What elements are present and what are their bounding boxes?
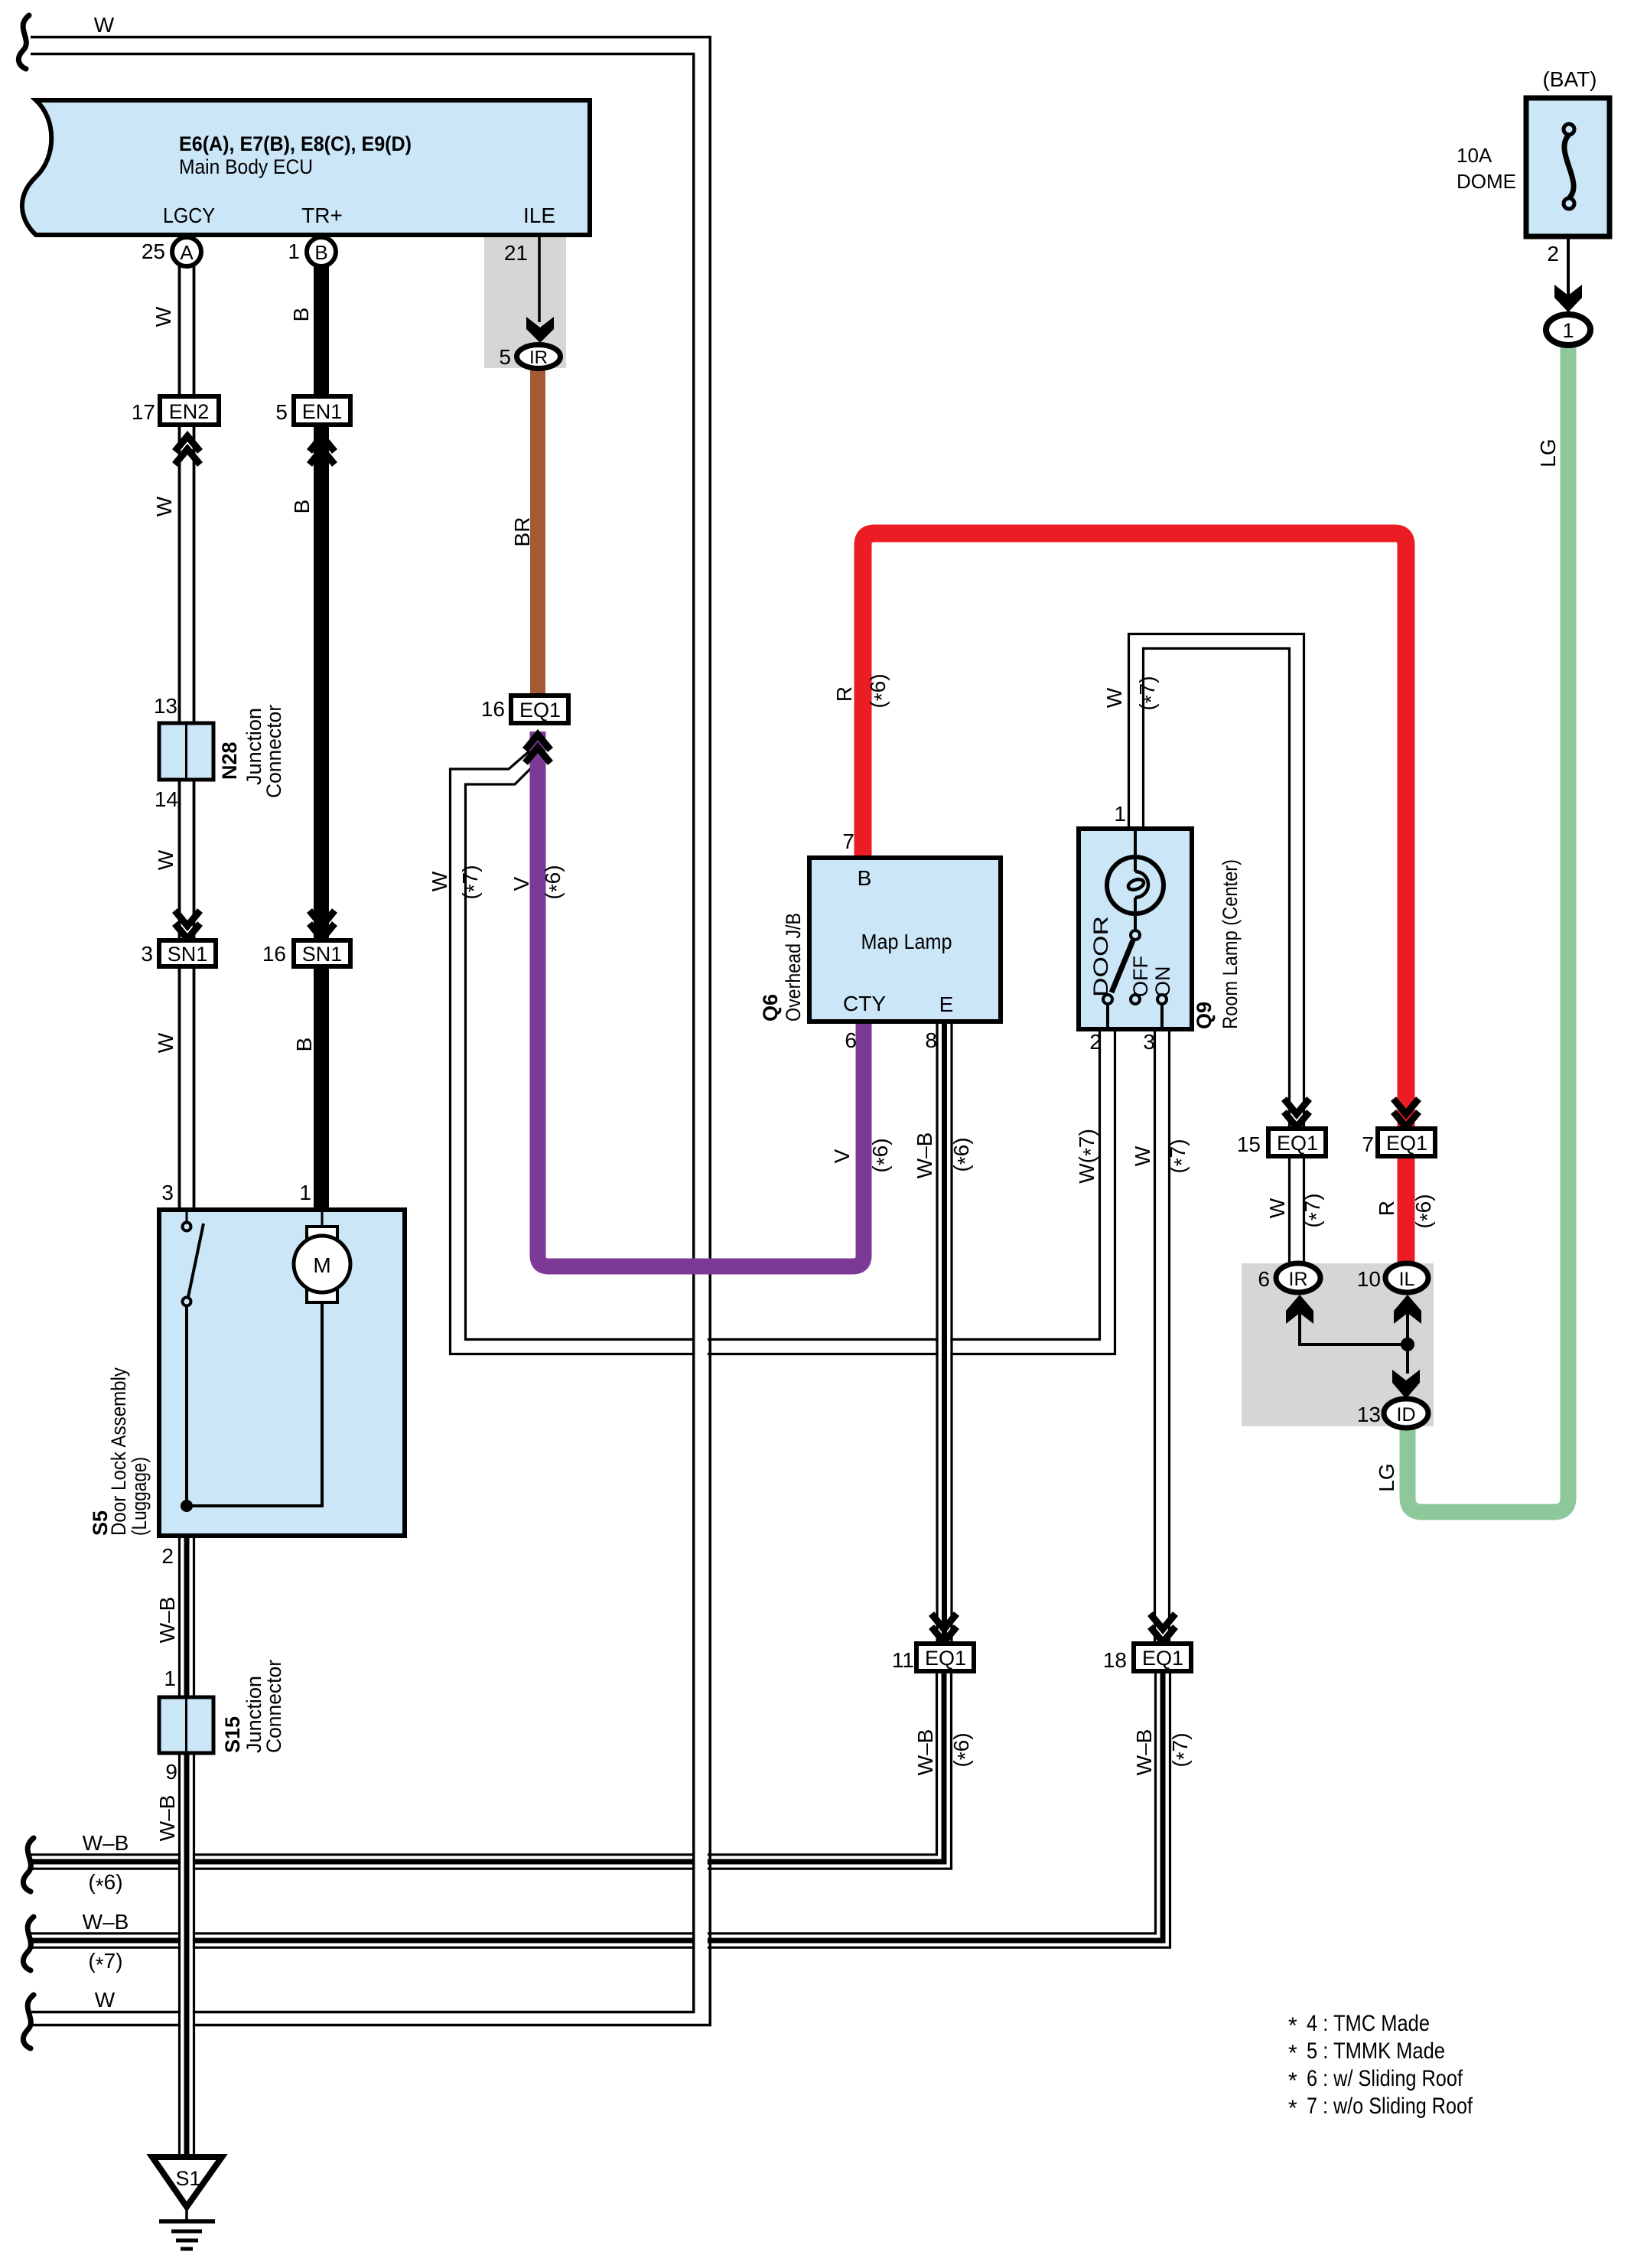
gray highlight box on ILE wire <box>484 237 566 368</box>
label W-B above S15 <box>155 1597 179 1644</box>
Map Lamp box Q6 Overhead J/B <box>759 829 1001 1052</box>
svg-text:DOME: DOME <box>1457 170 1516 193</box>
svg-text:IR: IR <box>1289 1269 1308 1290</box>
svg-text:BR: BR <box>510 517 534 547</box>
label LG below ID oval <box>1375 1463 1398 1491</box>
svg-text:W: W <box>154 1032 177 1053</box>
svg-text:(*7): (*7) <box>1168 1732 1196 1767</box>
svg-text:N28: N28 <box>218 741 241 780</box>
svg-text:SN1: SN1 <box>168 943 208 966</box>
svg-text:B: B <box>289 308 313 322</box>
wire W(*7) Room Lamp pin 3 to EQ1-18 <box>1155 1029 1170 1644</box>
svg-text:W–B: W–B <box>913 1729 937 1776</box>
svg-text:W–B: W–B <box>155 1597 179 1644</box>
svg-text:EN2: EN2 <box>169 400 210 423</box>
break curl of bottom wire W <box>23 1995 34 2048</box>
internal link lines and junction dot <box>1300 1310 1414 1374</box>
svg-text:W–B: W–B <box>83 1831 129 1855</box>
svg-text:EQ1: EQ1 <box>519 699 561 722</box>
svg-text:DOOR: DOOR <box>1089 916 1112 997</box>
label W (*7) above IR oval <box>1265 1193 1328 1227</box>
svg-text:18: 18 <box>1103 1648 1127 1672</box>
svg-text:(*7): (*7) <box>1166 1139 1193 1173</box>
svg-text:10A: 10A <box>1457 144 1492 167</box>
svg-text:(*6): (*6) <box>866 673 893 708</box>
label W(*7) below Room Lamp pin 2 <box>1075 1129 1102 1184</box>
svg-text:R: R <box>1375 1201 1398 1216</box>
svg-text:Door Lock Assembly: Door Lock Assembly <box>107 1367 130 1536</box>
label W on wire N28-SN1 <box>154 849 177 870</box>
fuse pin 2 wire and arrow <box>1547 236 1582 312</box>
label V (*6) below Map Lamp CTY <box>830 1138 896 1172</box>
svg-text:IL: IL <box>1399 1269 1415 1290</box>
oval connector 5 IR <box>499 345 560 370</box>
svg-text:5 : TMMK Made: 5 : TMMK Made <box>1307 2038 1445 2064</box>
svg-text:LG: LG <box>1536 438 1560 467</box>
svg-text:*: * <box>1288 2013 1297 2038</box>
svg-text:A: A <box>180 241 194 264</box>
label W-B below S15 <box>155 1795 179 1842</box>
svg-text:CTY: CTY <box>843 992 886 1015</box>
connector SN1 pin 16 <box>262 940 350 966</box>
svg-text:E6(A), E7(B), E8(C), E9(D): E6(A), E7(B), E8(C), E9(D) <box>179 132 412 155</box>
svg-text:1: 1 <box>164 1667 176 1690</box>
connector EQ1 pin 15 <box>1237 1129 1326 1156</box>
break curl of W-B(*6) <box>23 1838 34 1892</box>
label R (*6) on red wire above Map Lamp <box>832 673 893 708</box>
wire W-B(*6) Map Lamp E to EQ1-11 <box>937 1022 952 1644</box>
svg-text:W–B: W–B <box>83 1910 129 1934</box>
wire LG from ID oval to DOME fuse oval 1 <box>1408 330 1568 1512</box>
svg-text:S15: S15 <box>221 1716 244 1753</box>
svg-text:Map Lamp: Map Lamp <box>861 930 952 953</box>
wire W(*7) from EQ1-16 to Room Lamp pin 2 <box>451 749 1115 1354</box>
connector EN1 pin 5 <box>275 396 350 425</box>
svg-text:3: 3 <box>1143 1030 1155 1054</box>
svg-text:(*7): (*7) <box>1300 1193 1328 1227</box>
svg-text:W: W <box>94 13 115 37</box>
svg-text:9: 9 <box>165 1760 177 1784</box>
wire W-B(*7) EQ1-18 to left edge <box>31 1671 1170 1947</box>
svg-text:21: 21 <box>504 241 528 265</box>
gray highlight box around IR/IL/ID ovals <box>1242 1263 1434 1426</box>
ECU pin 21 ILE stub wire <box>504 237 539 322</box>
label W on wire SN1-S5 <box>154 1032 177 1053</box>
svg-text:(*7): (*7) <box>1135 676 1163 710</box>
chevron arrows below EQ1-16 <box>526 735 551 763</box>
svg-text:M: M <box>313 1253 330 1277</box>
svg-text:Overhead J/B: Overhead J/B <box>782 913 805 1022</box>
svg-text:W: W <box>154 849 177 870</box>
svg-text:7 : w/o Sliding Roof: 7 : w/o Sliding Roof <box>1307 2094 1473 2119</box>
svg-text:Main Body ECU: Main Body ECU <box>179 155 313 178</box>
chevron arrows above EQ1-15 <box>1284 1099 1310 1127</box>
svg-text:EQ1: EQ1 <box>1142 1647 1183 1670</box>
svg-text:*: * <box>1288 2068 1297 2094</box>
svg-text:W: W <box>1131 1145 1154 1166</box>
break curl of W-B(*7) <box>23 1917 34 1970</box>
chevron arrows above EQ1-11 <box>932 1614 957 1642</box>
svg-text:(*7): (*7) <box>458 865 486 899</box>
label W-B (*6) above EQ1-11 <box>913 1729 977 1776</box>
arrow down into ID <box>1392 1370 1420 1399</box>
svg-text:*: * <box>1288 2041 1297 2066</box>
wire W-B(*6) EQ1-11 to left edge <box>31 1671 952 1869</box>
wire BR from IR oval to EQ1-16 <box>530 366 545 696</box>
svg-text:B: B <box>292 1038 316 1052</box>
svg-text:W: W <box>152 496 176 516</box>
svg-text:EN1: EN1 <box>302 400 343 423</box>
room lamp switch DOOR/OFF/ON <box>1089 916 1174 1029</box>
label B on wire EN1-SN1 <box>290 500 314 514</box>
svg-text:4 : TMC Made: 4 : TMC Made <box>1307 2011 1430 2036</box>
svg-text:W: W <box>1102 687 1126 708</box>
connector EQ1 pin 16 <box>481 696 568 723</box>
svg-text:(Luggage): (Luggage) <box>128 1457 151 1536</box>
svg-text:5: 5 <box>275 400 288 424</box>
label V (*6) on purple wire below EQ1-16 <box>509 865 568 899</box>
wire W-B S5 pin 2 to ground S1 <box>180 1536 194 2156</box>
chevron arrows above SN1 pin 3 <box>175 911 200 939</box>
svg-text:TR+: TR+ <box>301 204 343 227</box>
svg-text:Q6: Q6 <box>759 994 782 1022</box>
label W-B (*7) on bottom horizontal wire <box>83 1910 129 1976</box>
wire W ECU pin A to S5 pin 3 <box>180 266 194 1210</box>
chevron arrows below EN2 <box>175 436 200 464</box>
fuse element symbol <box>1564 124 1574 209</box>
chevron arrows below EN1 <box>310 436 335 464</box>
connector SN1 pin 3 <box>141 940 216 966</box>
svg-text:R: R <box>832 686 856 702</box>
chevron arrows above EQ1-7 <box>1394 1099 1419 1127</box>
svg-text:15: 15 <box>1237 1132 1261 1156</box>
connector EQ1 pin 7 <box>1362 1129 1435 1156</box>
arrow up into IR <box>1286 1295 1313 1324</box>
svg-text:W: W <box>1265 1198 1289 1218</box>
svg-text:6 : w/ Sliding Roof: 6 : w/ Sliding Roof <box>1307 2066 1463 2091</box>
svg-text:E: E <box>939 992 954 1016</box>
svg-text:(*7): (*7) <box>88 1949 122 1976</box>
svg-text:V: V <box>509 876 533 891</box>
svg-text:B: B <box>290 500 314 514</box>
ECU pin 25 circle A <box>142 237 201 266</box>
svg-text:OFF: OFF <box>1129 956 1152 997</box>
notes legend <box>1288 2011 1473 2121</box>
arrow into IR oval <box>526 317 554 343</box>
svg-text:5: 5 <box>499 345 511 369</box>
svg-text:3: 3 <box>161 1181 174 1204</box>
svg-text:W–B: W–B <box>913 1132 936 1179</box>
label W-B (*6) on bottom horizontal wire <box>83 1831 129 1898</box>
svg-text:S1: S1 <box>175 2167 200 2190</box>
junction connector S15 pins 1/9 <box>159 1660 285 1784</box>
svg-text:(BAT): (BAT) <box>1542 67 1597 91</box>
junction connector N28 pins 13/14 <box>154 694 285 811</box>
svg-text:EQ1: EQ1 <box>1386 1132 1427 1155</box>
Main Body ECU box E6(A) E7(B) E8(C) E9(D) <box>22 100 590 235</box>
label LG on green wire top right <box>1536 438 1560 467</box>
svg-text:11: 11 <box>892 1648 914 1672</box>
label W (*7) on wire above Room Lamp pin 1 <box>1102 676 1163 710</box>
svg-text:10: 10 <box>1357 1267 1381 1291</box>
svg-text:LGCY: LGCY <box>163 204 215 227</box>
svg-text:B: B <box>314 241 327 264</box>
svg-text:2: 2 <box>161 1544 174 1568</box>
oval connector 1 of DOME circuit <box>1546 314 1590 345</box>
svg-text:Room Lamp (Center): Room Lamp (Center) <box>1219 859 1242 1029</box>
wire V(*6) from EQ1-16 to Map Lamp CTY <box>538 732 864 1266</box>
svg-text:3: 3 <box>141 942 153 966</box>
label B on wire B-EN1 <box>289 308 313 322</box>
svg-text:SN1: SN1 <box>302 943 343 966</box>
svg-text:7: 7 <box>842 829 854 853</box>
wire W right vertical over-layer <box>694 37 711 2025</box>
label W on wire EN2-N28 <box>152 496 176 516</box>
svg-text:13: 13 <box>1357 1403 1381 1426</box>
svg-text:16: 16 <box>481 697 505 721</box>
label W (*7) on wire below EQ1-16 <box>428 865 486 899</box>
chevron arrows above EQ1-18 <box>1151 1614 1176 1642</box>
ECU pin 1 circle B <box>288 237 336 266</box>
svg-text:Connector: Connector <box>262 705 285 798</box>
svg-text:6: 6 <box>845 1028 857 1052</box>
svg-text:W: W <box>95 1988 116 2012</box>
wire R(*6) EQ1-7 to IL oval <box>1398 1156 1415 1266</box>
arrow up into IL <box>1394 1295 1421 1324</box>
oval connector 13 ID <box>1357 1399 1428 1428</box>
svg-text:W: W <box>428 871 451 891</box>
ground S1 <box>152 2157 222 2249</box>
svg-text:LG: LG <box>1375 1463 1398 1491</box>
svg-text:B: B <box>858 866 872 890</box>
svg-text:Connector: Connector <box>262 1660 285 1753</box>
label BR on brown wire <box>510 517 534 547</box>
svg-text:17: 17 <box>132 400 155 424</box>
svg-text:6: 6 <box>1258 1267 1270 1291</box>
svg-text:Q9: Q9 <box>1193 1002 1216 1029</box>
svg-text:(*6): (*6) <box>868 1138 896 1172</box>
svg-text:W–B: W–B <box>155 1795 179 1842</box>
connector EQ1 pin 18 <box>1103 1644 1191 1672</box>
label B on wire SN1-S5 <box>292 1038 316 1052</box>
svg-text:7: 7 <box>1362 1132 1374 1156</box>
svg-text:ILE: ILE <box>523 204 555 227</box>
svg-text:8: 8 <box>925 1028 937 1052</box>
DOME fuse box 10A (BAT) <box>1457 67 1610 236</box>
svg-text:13: 13 <box>154 694 177 718</box>
connector EQ1 pin 11 <box>892 1644 974 1672</box>
svg-text:EQ1: EQ1 <box>1277 1132 1318 1155</box>
svg-text:16: 16 <box>262 942 286 966</box>
svg-text:2: 2 <box>1089 1030 1102 1054</box>
label W-B (*7) above EQ1-18 <box>1132 1729 1196 1776</box>
svg-text:*: * <box>1288 2096 1297 2121</box>
label W on bottom horizontal wire <box>95 1988 116 2012</box>
svg-text:14: 14 <box>155 787 178 811</box>
svg-text:W: W <box>151 306 175 327</box>
svg-text:25: 25 <box>142 240 165 263</box>
connector EN2 pin 17 <box>132 396 219 425</box>
svg-text:1: 1 <box>288 240 300 263</box>
svg-text:1: 1 <box>299 1181 311 1204</box>
door lock assembly S5 box <box>89 1181 405 1568</box>
wire B ECU pin B to S5 pin 1 <box>314 265 329 1210</box>
svg-text:2: 2 <box>1547 242 1559 266</box>
svg-text:W–B: W–B <box>1132 1729 1156 1776</box>
S5 internal motor M <box>294 1210 350 1302</box>
wire W main loop (ECU area top-left, right vertical, bottom horizontal) <box>31 37 710 2025</box>
svg-text:(*6): (*6) <box>949 1137 977 1171</box>
S5 internal switch <box>181 1210 322 1512</box>
break curl top-left of wire W <box>18 15 29 69</box>
wire R(*6) from Map Lamp B to EQ1-7 <box>863 533 1406 1131</box>
svg-text:1: 1 <box>1562 319 1574 342</box>
oval connector 10 IL <box>1357 1263 1428 1292</box>
label W on wire A-EN2 <box>151 306 175 327</box>
svg-text:(*6): (*6) <box>541 865 568 899</box>
svg-text:(*6): (*6) <box>949 1732 977 1767</box>
svg-text:IR: IR <box>529 347 548 368</box>
label W top wire <box>94 13 115 37</box>
svg-text:(*6): (*6) <box>88 1870 122 1898</box>
svg-text:EQ1: EQ1 <box>925 1647 966 1670</box>
svg-text:(*6): (*6) <box>1411 1194 1439 1228</box>
oval connector 6 IR <box>1258 1263 1320 1292</box>
label W (*7) below Room Lamp pin 3 <box>1131 1139 1193 1173</box>
svg-text:ON: ON <box>1151 966 1174 998</box>
Room Lamp (Center) box Q9 <box>1079 802 1242 1054</box>
wire W EQ1-15 to IR oval <box>1290 1156 1304 1266</box>
label R (*6) above IL oval <box>1375 1194 1439 1228</box>
room lamp bulb <box>1107 831 1164 930</box>
chevron arrows above SN1 pin 16 <box>310 911 335 939</box>
svg-text:1: 1 <box>1114 802 1126 826</box>
label W-B (*6) below Map Lamp E <box>913 1132 977 1179</box>
svg-text:W(*7): W(*7) <box>1075 1129 1102 1184</box>
svg-text:ID: ID <box>1397 1404 1416 1426</box>
svg-text:V: V <box>830 1149 854 1163</box>
wire W(*7) Room Lamp pin 1 to EQ1-15 <box>1129 634 1304 1132</box>
